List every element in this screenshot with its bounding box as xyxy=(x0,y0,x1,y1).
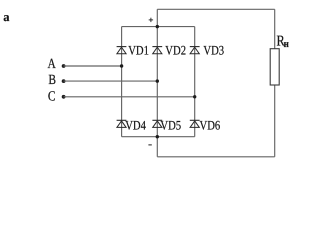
diode VD5 xyxy=(152,117,181,132)
wire top rail (+ bus from middle branch to resistor) xyxy=(157,8,274,10)
svg-text:VD3: VD3 xyxy=(203,43,224,58)
node - (negative terminal mark) xyxy=(148,144,151,146)
svg-text:VD4: VD4 xyxy=(125,117,146,132)
wire branch 3 vertical xyxy=(194,27,196,137)
wire bridge bottom bar xyxy=(122,136,195,138)
node C (phase input C: label, terminal, wire) xyxy=(48,90,195,105)
wire branch 1 vertical xyxy=(121,27,123,137)
diode VD2 xyxy=(152,43,186,58)
svg-text:н: н xyxy=(284,39,289,50)
svg-text:VD2: VD2 xyxy=(165,43,186,58)
junction branch2-bottom bar xyxy=(156,135,159,138)
svg-text:VD6: VD6 xyxy=(200,117,221,132)
svg-text:B: B xyxy=(48,73,56,88)
diode VD3 xyxy=(190,43,224,58)
diode VD4 xyxy=(117,117,147,132)
junction branch2-top bar xyxy=(156,25,159,28)
junction B-branch2 xyxy=(156,79,159,82)
wire branch 2 vertical xyxy=(156,9,158,157)
diode VD1 xyxy=(117,43,149,58)
junction A-branch1 xyxy=(120,64,123,67)
node + (positive terminal mark) xyxy=(149,18,153,22)
svg-text:a: a xyxy=(3,10,10,24)
svg-text:A: A xyxy=(48,57,57,72)
svg-text:C: C xyxy=(48,90,56,105)
resistor Rн (load) xyxy=(270,33,289,85)
node A (phase input A: label, terminal, wire) xyxy=(48,57,122,72)
wire bridge top bar xyxy=(122,26,195,28)
wire right drop from top rail to resistor xyxy=(274,9,276,48)
svg-text:VD1: VD1 xyxy=(128,43,149,58)
svg-text:VD5: VD5 xyxy=(160,117,181,132)
wire right drop from resistor to bottom rail xyxy=(274,85,276,157)
diode VD6 xyxy=(190,117,221,132)
junction C-branch3 xyxy=(193,95,196,98)
wire bottom rail (- bus) xyxy=(157,156,274,158)
node B (phase input B: label, terminal, wire) xyxy=(48,73,157,88)
